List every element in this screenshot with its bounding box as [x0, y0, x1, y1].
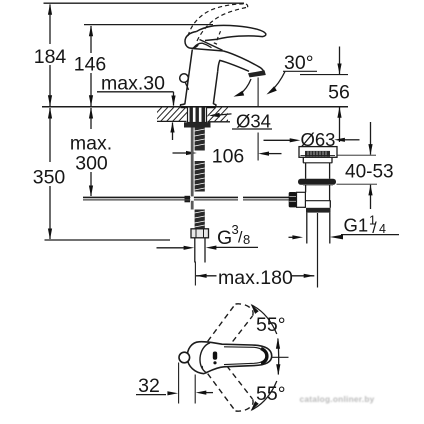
- svg-text:40-53: 40-53: [345, 162, 394, 183]
- svg-text:350: 350: [33, 167, 66, 189]
- svg-text:56: 56: [328, 82, 350, 104]
- svg-text:184: 184: [34, 46, 67, 68]
- svg-text:/: /: [372, 220, 377, 237]
- svg-text:max.30: max.30: [101, 73, 165, 95]
- svg-text:G1: G1: [344, 215, 369, 236]
- svg-text:55°: 55°: [256, 383, 286, 405]
- svg-text:Ø63: Ø63: [301, 129, 336, 150]
- svg-text:106: 106: [212, 146, 245, 168]
- svg-text:30°: 30°: [284, 52, 314, 74]
- svg-text:4: 4: [379, 222, 386, 236]
- svg-text:catalog.onliner.by: catalog.onliner.by: [299, 394, 374, 404]
- svg-text:300: 300: [75, 153, 108, 175]
- svg-text:55°: 55°: [256, 314, 286, 336]
- svg-text:max.: max.: [70, 133, 112, 155]
- svg-text:Ø34: Ø34: [236, 110, 271, 131]
- svg-text:max.180: max.180: [218, 267, 293, 289]
- svg-text:32: 32: [138, 375, 160, 397]
- svg-text:G: G: [217, 227, 232, 249]
- svg-text:8: 8: [243, 232, 250, 247]
